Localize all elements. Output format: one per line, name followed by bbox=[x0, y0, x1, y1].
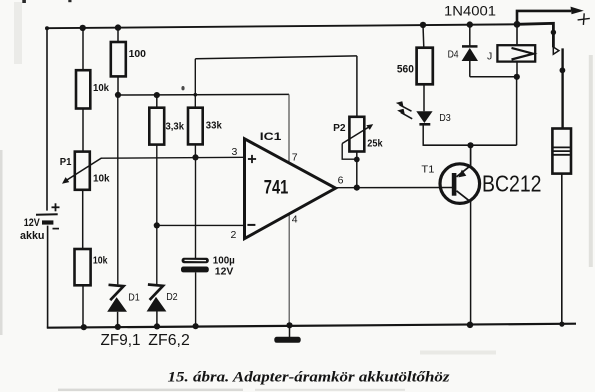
svg-text:D1: D1 bbox=[128, 292, 140, 303]
zener diode D2 bbox=[147, 285, 167, 327]
wire top rail bbox=[47, 24, 518, 28]
resistor 560 bbox=[417, 48, 433, 85]
svg-text:7: 7 bbox=[292, 151, 298, 163]
node bottom rail / cap bbox=[193, 323, 199, 329]
wire divider chain top bbox=[82, 28, 84, 70]
wire pin7 supply drop bbox=[288, 94, 290, 163]
node top rail / relay bbox=[514, 21, 521, 28]
wire 33k bottom lead bbox=[194, 144, 196, 157]
node bottom rail / ground bbox=[286, 322, 292, 328]
node contact arm bbox=[551, 30, 556, 35]
node top rail / 100 ohm bbox=[115, 24, 121, 30]
battery 12V akku bbox=[36, 203, 60, 228]
wire pin2 input bbox=[157, 224, 245, 226]
svg-text:akku: akku bbox=[20, 230, 45, 242]
wire D1 branch vertical bbox=[117, 95, 119, 284]
svg-text:10k: 10k bbox=[93, 255, 108, 267]
svg-text:12V: 12V bbox=[215, 267, 234, 278]
resistor 3,3k bbox=[149, 108, 164, 145]
wire 33k top lead bbox=[194, 59, 196, 108]
battery under charge (akku cell) bbox=[552, 129, 571, 174]
wire 33k node down to capacitor bbox=[195, 157, 197, 258]
wire relay top lead bbox=[516, 24, 518, 45]
resistor 33k bbox=[188, 108, 203, 145]
wire fixed contact down bbox=[561, 48, 563, 128]
wire op-amp output to base bbox=[336, 187, 452, 189]
wire bottom rail bbox=[47, 324, 576, 328]
node bottom rail / charged battery bbox=[559, 322, 564, 327]
svg-text:ZF9,1: ZF9,1 bbox=[101, 332, 141, 349]
svg-text:T1: T1 bbox=[421, 163, 434, 175]
wire rail2 (regulated node) bbox=[118, 93, 289, 96]
wire D4 top lead bbox=[469, 25, 471, 47]
svg-text:100: 100 bbox=[129, 48, 147, 60]
node output / P2 bbox=[354, 185, 360, 191]
svg-text:D4: D4 bbox=[448, 49, 459, 61]
resistor 100 bbox=[111, 42, 126, 76]
wire 3.3k top lead bbox=[156, 95, 158, 108]
svg-text:IC1: IC1 bbox=[260, 131, 282, 143]
transistor T1 BC212 bbox=[440, 145, 480, 324]
LED D3 bbox=[396, 101, 433, 124]
svg-text:4: 4 bbox=[292, 214, 298, 226]
node D4 / relay bottom bbox=[514, 74, 520, 80]
node rail2 / 3.3k bbox=[154, 92, 160, 98]
op-amp plus input sign bbox=[248, 155, 256, 163]
wire P2 bottom lead to output bbox=[356, 152, 358, 188]
svg-text:10k: 10k bbox=[93, 172, 110, 184]
wire emitter rail bbox=[423, 144, 516, 146]
wire P1 to lower 10k bbox=[82, 190, 84, 249]
wire relay bottom lead bbox=[516, 62, 518, 77]
node bottom rail / D2 bbox=[154, 323, 160, 329]
wire contact arm branch bbox=[517, 23, 553, 47]
wire P2 top lead bbox=[356, 56, 358, 117]
op-amp minus input sign bbox=[247, 224, 255, 226]
svg-text:D3: D3 bbox=[439, 112, 451, 124]
wire 10k to P1 bbox=[82, 109, 84, 152]
output plug arrow bbox=[571, 7, 584, 15]
svg-text:ZF6,2: ZF6,2 bbox=[148, 332, 190, 349]
wire left frame upper (to battery) bbox=[46, 28, 48, 210]
node rail2 / 33k crossing bbox=[194, 93, 198, 97]
node P2 wiper bbox=[354, 157, 360, 163]
potentiometer P2 25k bbox=[342, 117, 373, 159]
svg-text:BC212: BC212 bbox=[482, 171, 542, 197]
wire D3 to emitter rail bbox=[422, 125, 424, 146]
wire pin4 to ground rail bbox=[288, 214, 290, 325]
wire lower 10k to bottom rail bbox=[82, 285, 84, 327]
node top rail / divider bbox=[80, 25, 86, 31]
node bottom rail / divider bbox=[81, 324, 87, 330]
relay coil J bbox=[497, 45, 535, 61]
potentiometer P1 bbox=[62, 152, 102, 190]
svg-text:100µ: 100µ bbox=[213, 256, 235, 267]
svg-text:15. ábra. Adapter-áramkör akku: 15. ábra. Adapter-áramkör akkutöltőhöz bbox=[168, 369, 450, 385]
svg-text:3: 3 bbox=[232, 146, 238, 158]
wire feedback top (33k / P2 top) bbox=[195, 56, 357, 59]
relay contact tip bbox=[553, 47, 559, 54]
wire output plus branch bbox=[517, 11, 571, 24]
wire D4 to relay bottom node bbox=[470, 76, 517, 78]
label plus output bbox=[578, 13, 590, 25]
node rail2 / D1 bbox=[115, 92, 121, 98]
node top rail corner blob bbox=[45, 26, 49, 30]
svg-text:2: 2 bbox=[231, 229, 237, 241]
node pin3 / 33k bbox=[192, 154, 198, 160]
diode D4 bbox=[462, 46, 478, 76]
wire 560 top lead bbox=[422, 25, 425, 48]
resistor 10k upper bbox=[76, 70, 90, 108]
svg-text:1N4001: 1N4001 bbox=[444, 3, 496, 19]
svg-text:J: J bbox=[487, 50, 492, 62]
node bottom rail / collector bbox=[467, 322, 474, 329]
wire 100 ohm bottom lead bbox=[117, 76, 119, 95]
svg-text:P1: P1 bbox=[60, 156, 72, 168]
zener diode D1 bbox=[107, 285, 127, 327]
svg-text:6: 6 bbox=[338, 175, 344, 187]
ground bbox=[274, 325, 300, 343]
wire 100 ohm top lead bbox=[117, 28, 119, 42]
svg-text:D2: D2 bbox=[166, 292, 178, 303]
node top rail / D4 bbox=[467, 21, 473, 27]
wire 3.3k down to D2 (through pin2 node) bbox=[156, 145, 158, 285]
svg-text:3,3k: 3,3k bbox=[166, 120, 185, 132]
svg-text:12V: 12V bbox=[24, 217, 41, 229]
wire pin3 input bbox=[101, 156, 244, 159]
node bottom rail / D1 bbox=[115, 324, 121, 330]
wire charged battery to bottom rail bbox=[561, 174, 563, 325]
svg-text:33k: 33k bbox=[206, 120, 222, 132]
wire emitter rail up to relay node bbox=[516, 77, 518, 145]
svg-text:741: 741 bbox=[264, 176, 289, 198]
wire 560 to D3 bbox=[423, 84, 425, 111]
node emitter junction bbox=[467, 142, 473, 148]
node pin2 / 3.3k bbox=[154, 222, 160, 228]
wire left frame lower (battery to bottom rail) bbox=[47, 226, 49, 328]
node fixed contact bbox=[560, 67, 566, 73]
resistor 10k lower bbox=[75, 249, 91, 285]
svg-text:25k: 25k bbox=[367, 137, 382, 149]
svg-text:560: 560 bbox=[397, 63, 414, 75]
svg-text:10k: 10k bbox=[93, 82, 109, 94]
capacitor C1 100u bbox=[181, 258, 209, 327]
node top rail / 560 bbox=[420, 22, 426, 28]
op-amp IC1 741 bbox=[245, 139, 336, 239]
svg-text:P2: P2 bbox=[333, 122, 346, 134]
